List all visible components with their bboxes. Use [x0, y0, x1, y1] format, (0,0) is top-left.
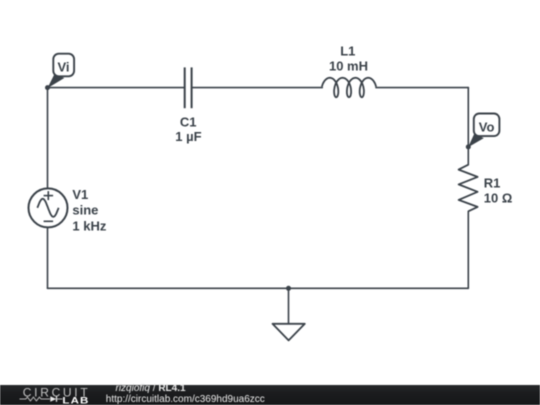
label C1 value [175, 115, 201, 145]
wire ground stem [288, 288, 290, 324]
svg-text:10 mH: 10 mH [329, 59, 368, 74]
label R1 value [484, 175, 513, 205]
wire right vertical lower (R1 to bottom corner) [467, 211, 469, 288]
svg-text:V1: V1 [72, 187, 88, 202]
footer text [116, 385, 186, 392]
junction dot ground node [286, 286, 291, 291]
node Vo flag [468, 114, 499, 148]
svg-text:C1: C1 [180, 115, 197, 130]
capacitor C1 [185, 67, 192, 108]
wire L1 to top-right corner [376, 87, 468, 89]
svg-text:10 Ω: 10 Ω [484, 190, 513, 205]
voltage source V1 [29, 188, 68, 227]
svg-text:sine: sine [72, 202, 98, 217]
svg-text:1 µF: 1 µF [175, 129, 201, 144]
ground [273, 324, 305, 341]
label L1 value [329, 44, 368, 74]
node Vi flag [47, 54, 74, 88]
wire bottom [48, 287, 469, 289]
junction dot Vo node [466, 144, 471, 149]
CircuitLab logo [0, 385, 100, 405]
wire C1 to L1 [192, 87, 323, 89]
svg-text:1 kHz: 1 kHz [72, 219, 106, 234]
wire top left (Vi node to C1) [48, 87, 185, 89]
footer bar [0, 385, 540, 405]
svg-text:Vi: Vi [57, 59, 69, 74]
wire left vertical lower (V1 to bottom corner) [47, 228, 49, 289]
svg-text:R1: R1 [484, 175, 501, 190]
wire left vertical upper (Vi node to V1) [47, 88, 49, 189]
resistor R1 [459, 165, 478, 212]
svg-text:LAB: LAB [62, 396, 89, 405]
svg-text:L1: L1 [340, 44, 355, 59]
junction dot Vi node [45, 85, 50, 90]
wire right vertical upper (corner to R1) [467, 88, 469, 165]
svg-text:Vo: Vo [479, 119, 495, 134]
label V1 value [72, 187, 106, 234]
inductor L1 [322, 78, 376, 97]
